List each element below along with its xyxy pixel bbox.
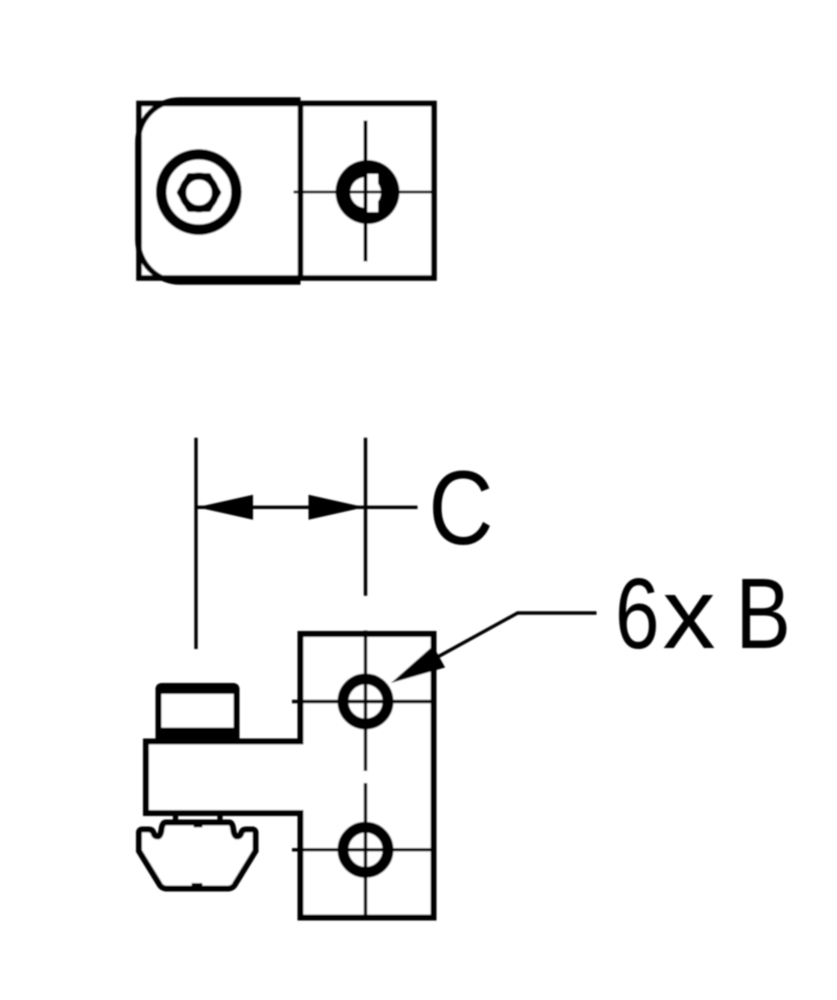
screw head: [159, 686, 237, 742]
body outline rectangle: [139, 104, 434, 279]
rounded clamp tongue: [138, 100, 301, 282]
dimension arrow left: [197, 495, 253, 520]
hex screw outer ring: [161, 154, 236, 229]
screw shank right: [217, 811, 222, 822]
screw head top band: [157, 685, 238, 695]
hole B lower ring: [343, 827, 388, 872]
leader line 6x B: [404, 613, 597, 676]
leader arrowhead: [391, 646, 445, 683]
T-nut top thread notch: [194, 823, 203, 828]
svg-text:C: C: [429, 449, 494, 566]
svg-text:x: x: [663, 558, 716, 670]
lower hole horizontal line: [292, 848, 434, 851]
screw head washer band: [156, 728, 239, 742]
hex socket: [179, 175, 219, 209]
centerline lower segment: [364, 783, 367, 918]
dimension line C: [196, 506, 418, 509]
hole B horizontal centerline: [294, 191, 435, 194]
T-nut bottom notch: [192, 883, 203, 888]
dimension extension line left: [194, 438, 197, 649]
screw shank left: [173, 811, 178, 822]
T-nut profile: [139, 823, 256, 889]
hex screw inner ring: [183, 176, 216, 209]
centerline middle segment: [364, 631, 367, 771]
divider line: [298, 104, 304, 279]
hole B upper ring: [343, 679, 388, 724]
svg-text:6: 6: [615, 559, 659, 671]
hole B filled symbol: [336, 160, 400, 224]
upper hole horizontal line: [292, 700, 434, 703]
centerline above body: [364, 438, 367, 596]
hole B vertical centerline: [364, 121, 368, 262]
dimension arrow right: [309, 495, 365, 520]
clamp body profile: [146, 634, 434, 918]
svg-text:B: B: [736, 559, 791, 670]
